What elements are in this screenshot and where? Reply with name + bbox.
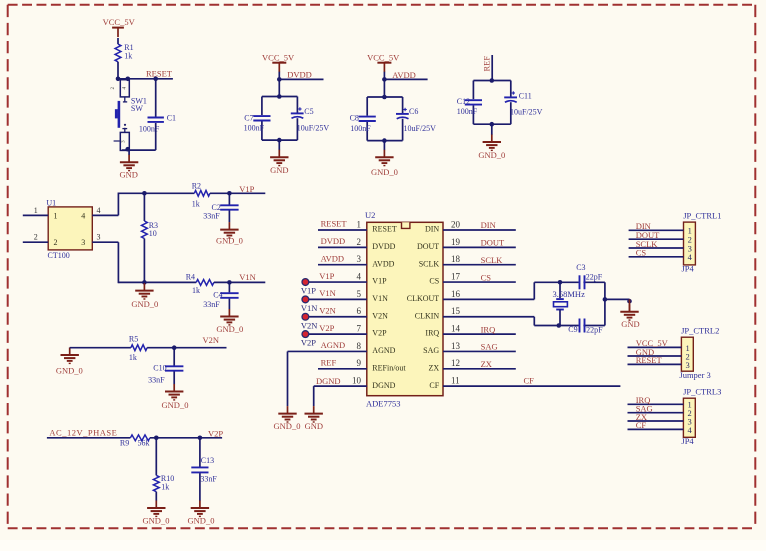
wire AGND pin8 xyxy=(288,350,367,352)
node junction AVDD xyxy=(382,77,387,82)
svg-text:1k: 1k xyxy=(192,200,200,209)
svg-text:GND: GND xyxy=(621,319,639,329)
svg-text:REFin/out: REFin/out xyxy=(372,363,406,372)
U1 pin numbers outside xyxy=(34,206,101,242)
wire C13 lower xyxy=(199,473,201,501)
ground GND_0 (R10) xyxy=(143,501,170,526)
svg-text:10: 10 xyxy=(352,376,362,386)
resistor R1 xyxy=(115,43,134,62)
wire crystal top rail xyxy=(534,281,605,283)
node junction C1 tap xyxy=(153,77,158,82)
wire RESET to JP_CTRL2 xyxy=(628,363,682,365)
svg-text:17: 17 xyxy=(451,271,461,281)
connector JP_CTRL3 box xyxy=(683,398,695,437)
wire R10 top xyxy=(155,438,157,476)
wire V1N pin5 xyxy=(305,298,366,300)
ground GND_0 (AVDD) xyxy=(371,150,398,177)
node junction DVDD xyxy=(277,77,282,82)
node junction C4 xyxy=(227,280,232,285)
svg-text:C6: C6 xyxy=(409,107,418,116)
resistor R2 xyxy=(192,182,210,209)
wire crystal bottom rail xyxy=(534,325,605,327)
wire R5 right xyxy=(147,347,226,349)
wire DVDD pin2 xyxy=(318,246,367,248)
svg-text:V1P: V1P xyxy=(239,184,254,194)
svg-text:R4: R4 xyxy=(186,273,195,282)
svg-text:100nF: 100nF xyxy=(457,107,478,116)
wire GND to JP_CTRL2 xyxy=(628,355,682,357)
svg-text:DOUT: DOUT xyxy=(417,242,439,251)
svg-text:JP_CTRL2: JP_CTRL2 xyxy=(681,326,719,336)
svg-text:11: 11 xyxy=(451,376,460,386)
svg-text:2: 2 xyxy=(357,237,362,247)
svg-text:20: 20 xyxy=(451,219,461,229)
wire R3 top xyxy=(143,193,145,221)
wire C1 upper stem xyxy=(155,79,157,117)
svg-text:12: 12 xyxy=(451,358,460,368)
wire IRQ to JP_CTRL3 xyxy=(628,403,684,405)
wire SCLK pin18 xyxy=(443,264,516,266)
ground GND (crystal) xyxy=(620,299,639,328)
node junction top rail (DVDD) xyxy=(277,94,282,99)
svg-text:5: 5 xyxy=(357,289,362,299)
svg-text:C3: C3 xyxy=(576,263,585,272)
capacitor C8 xyxy=(350,114,376,133)
svg-text:ZX: ZX xyxy=(481,359,492,369)
resistor R5 xyxy=(129,334,147,362)
node junction R1/SW1 xyxy=(116,77,130,82)
node junction C10 xyxy=(172,345,177,350)
test point V1N xyxy=(302,296,309,303)
svg-text:ZX: ZX xyxy=(429,363,440,372)
svg-text:AC_12V_PHASE: AC_12V_PHASE xyxy=(49,427,117,437)
capacitor C2 xyxy=(203,203,238,220)
svg-text:1k: 1k xyxy=(129,353,137,362)
wire C2 upper xyxy=(228,193,230,204)
wire CS pin17 xyxy=(443,281,516,283)
svg-text:3: 3 xyxy=(97,233,101,242)
wire U1 pin3 down xyxy=(117,242,119,283)
svg-text:DVDD: DVDD xyxy=(321,236,346,246)
svg-text:GND_0: GND_0 xyxy=(131,299,158,309)
svg-text:C12: C12 xyxy=(457,97,470,106)
svg-text:R9: R9 xyxy=(120,439,129,448)
wire SAG pin13 xyxy=(443,350,516,352)
node junction bottom rail (REF) xyxy=(490,122,495,127)
svg-text:AVDD: AVDD xyxy=(321,253,344,263)
ground GND_0 (REF) xyxy=(478,135,505,160)
svg-text:DVDD: DVDD xyxy=(287,70,312,80)
svg-text:V1N: V1N xyxy=(301,303,318,313)
power VCC_5V (R1) xyxy=(103,17,136,37)
svg-text:V1N: V1N xyxy=(372,294,388,303)
ground GND_0 (R3) xyxy=(131,283,158,309)
svg-text:C4: C4 xyxy=(213,290,222,299)
svg-text:4: 4 xyxy=(97,206,101,215)
svg-text:AVDD: AVDD xyxy=(372,259,394,268)
U1 pin names inside xyxy=(54,211,86,247)
svg-text:V1P: V1P xyxy=(319,271,334,281)
component U1 CT100 box xyxy=(48,207,92,250)
wire SCLK to JP_CTRL1 xyxy=(629,247,684,249)
svg-text:1: 1 xyxy=(54,211,58,220)
wire crystal stem top xyxy=(559,282,561,298)
wire DIN to JP_CTRL1 xyxy=(629,229,684,231)
svg-text:100nF: 100nF xyxy=(139,124,160,133)
wire C8 stems xyxy=(366,97,368,141)
svg-text:GND_0: GND_0 xyxy=(216,236,243,246)
test point V2P xyxy=(302,331,309,338)
svg-text:REF: REF xyxy=(321,358,337,368)
svg-text:100nF: 100nF xyxy=(350,124,371,133)
wire V1P rail left xyxy=(118,192,194,194)
svg-text:V2P: V2P xyxy=(319,323,334,333)
U2 orientation notch xyxy=(402,222,410,228)
svg-text:4: 4 xyxy=(81,211,85,220)
svg-text:GND_0: GND_0 xyxy=(216,324,243,334)
wire DGND pin10 xyxy=(314,385,367,387)
svg-text:100nF: 100nF xyxy=(244,124,265,133)
svg-text:GND: GND xyxy=(119,170,137,180)
svg-text:VCC_5V: VCC_5V xyxy=(262,53,295,63)
ground GND (DGND) xyxy=(305,406,324,431)
svg-text:AVDD: AVDD xyxy=(392,70,415,80)
svg-text:C10: C10 xyxy=(153,363,166,372)
svg-text:1k: 1k xyxy=(161,483,169,492)
wire V2N pin6 xyxy=(305,316,366,318)
wire DGND down xyxy=(313,386,315,406)
svg-text:V2P: V2P xyxy=(301,338,316,348)
svg-text:C9: C9 xyxy=(568,325,577,334)
node junction crystal top xyxy=(558,280,563,285)
wire U1 pin4 up xyxy=(117,193,119,216)
capacitor C5 (polarized) xyxy=(291,107,330,133)
wire V1N rail left xyxy=(118,281,196,283)
capacitor C3 xyxy=(576,263,603,289)
svg-text:SAG: SAG xyxy=(481,342,498,352)
svg-text:V2N: V2N xyxy=(372,311,388,320)
svg-text:10uF/25V: 10uF/25V xyxy=(297,124,330,133)
wire to GND (switch) xyxy=(128,150,130,155)
node GND port dot xyxy=(627,299,632,304)
svg-text:33nF: 33nF xyxy=(200,475,217,484)
wire bottom rail (AVDD) xyxy=(367,140,402,142)
wire top rail (DVDD) xyxy=(262,96,298,98)
svg-text:V2N: V2N xyxy=(203,335,220,345)
svg-text:AGND: AGND xyxy=(372,346,395,355)
svg-text:2: 2 xyxy=(34,233,38,242)
wire C2 lower xyxy=(228,211,230,223)
wire V1P pin4 xyxy=(305,281,366,283)
svg-text:DIN: DIN xyxy=(481,220,496,230)
node junction top rail (AVDD) xyxy=(382,95,387,100)
wire C11 stems xyxy=(510,81,512,125)
U1 pin 1 wire xyxy=(23,214,48,216)
wire IRQ pin14 xyxy=(443,333,516,335)
svg-text:1: 1 xyxy=(34,206,38,215)
wire CF pin11 xyxy=(443,385,620,387)
svg-text:SAG: SAG xyxy=(423,346,439,355)
svg-text:RESET: RESET xyxy=(146,69,173,79)
svg-text:22pF: 22pF xyxy=(586,273,603,282)
wire CLKOUT pin16 xyxy=(443,298,534,300)
wire CS to JP_CTRL1 xyxy=(629,256,684,258)
svg-text:3: 3 xyxy=(686,360,690,370)
wire VCC to R1 xyxy=(117,38,119,44)
ground GND_0 (R5 left) xyxy=(56,348,83,376)
wire DVDD xyxy=(279,78,323,80)
svg-text:V1N: V1N xyxy=(239,272,256,282)
svg-text:DGND: DGND xyxy=(372,381,395,390)
svg-text:4: 4 xyxy=(357,271,362,281)
wire C5 stems xyxy=(296,97,298,141)
ground GND (DVDD) xyxy=(270,150,288,176)
wire bottom rail (DVDD) xyxy=(262,139,298,141)
svg-text:GND_0: GND_0 xyxy=(188,516,215,526)
wire VCC_5V to JP_CTRL2 xyxy=(628,346,682,348)
svg-text:DGND: DGND xyxy=(316,376,341,386)
svg-text:R2: R2 xyxy=(192,182,201,191)
svg-text:SCLK: SCLK xyxy=(419,259,440,268)
svg-text:C13: C13 xyxy=(201,456,214,465)
wire C10 lower xyxy=(173,372,175,385)
svg-text:DVDD: DVDD xyxy=(372,242,395,251)
svg-text:GND_0: GND_0 xyxy=(274,421,301,431)
svg-text:V2P: V2P xyxy=(208,429,223,439)
wire RESET pin1 xyxy=(318,229,367,231)
resistor R4 xyxy=(186,273,214,295)
svg-text:56k: 56k xyxy=(138,439,150,448)
ground GND (switch) xyxy=(119,155,138,180)
svg-text:CT100: CT100 xyxy=(48,251,70,260)
svg-text:16: 16 xyxy=(451,289,461,299)
wire R3 to ground xyxy=(143,282,145,284)
svg-text:V2N: V2N xyxy=(301,320,318,330)
capacitor C10 xyxy=(148,363,183,384)
ground GND_0 (C4) xyxy=(216,309,243,334)
resistor R3 xyxy=(142,221,159,239)
svg-text:JP4: JP4 xyxy=(682,264,695,274)
capacitor C9 xyxy=(568,319,603,335)
svg-text:CLKOUT: CLKOUT xyxy=(407,294,440,303)
node junction R10 xyxy=(154,436,159,441)
svg-text:ADE7753: ADE7753 xyxy=(366,398,400,408)
wire R5 left xyxy=(70,347,131,349)
svg-text:SW: SW xyxy=(131,104,143,113)
svg-text:2: 2 xyxy=(54,238,58,247)
svg-text:33nF: 33nF xyxy=(203,211,220,220)
svg-text:1k: 1k xyxy=(124,52,132,61)
wire R3 bottom xyxy=(143,239,145,283)
wire AVDD xyxy=(384,78,427,80)
svg-text:7: 7 xyxy=(357,324,362,334)
node junction R3 bottom xyxy=(142,280,147,285)
wire REF pin9 xyxy=(318,368,367,370)
sheet edge strip xyxy=(0,540,766,551)
svg-text:GND: GND xyxy=(305,421,323,431)
svg-text:1: 1 xyxy=(357,219,362,229)
capacitor C4 xyxy=(203,290,238,309)
U1 pin 4 wire xyxy=(92,214,118,216)
node junction crystal bottom xyxy=(557,323,562,328)
ground GND_0 (AGND) xyxy=(274,406,301,431)
wire bottom rail (REF) xyxy=(473,123,510,125)
svg-text:C5: C5 xyxy=(304,107,313,116)
wire R10 bottom xyxy=(155,492,157,501)
node junction C13 xyxy=(198,436,203,441)
svg-text:RESET: RESET xyxy=(372,225,397,234)
switch SW1 xyxy=(111,80,130,151)
svg-text:3.58MHz: 3.58MHz xyxy=(553,289,586,299)
wire R1 to RESET node xyxy=(117,62,119,79)
svg-text:V1P: V1P xyxy=(372,277,387,286)
node junction switch bottom xyxy=(125,147,130,152)
resistor R10 xyxy=(153,474,174,492)
svg-text:33nF: 33nF xyxy=(148,375,165,384)
connector JP_CTRL2 box xyxy=(681,337,693,371)
svg-text:R5: R5 xyxy=(129,334,138,343)
test point V2N xyxy=(302,313,309,320)
svg-text:1k: 1k xyxy=(192,286,200,295)
wire to ground (REF) xyxy=(491,124,493,135)
op-amp U2 ADE7753 body xyxy=(367,222,443,395)
node junction bottom rail (DVDD) xyxy=(277,138,282,143)
svg-text:V1P: V1P xyxy=(301,286,316,296)
wire crystal right vertical xyxy=(604,282,606,325)
wire ZX to JP_CTRL3 xyxy=(628,420,684,422)
svg-text:Jumper 3: Jumper 3 xyxy=(679,370,710,380)
svg-text:RESET: RESET xyxy=(636,355,663,365)
svg-text:RESET: RESET xyxy=(321,219,348,229)
ground GND_0 (C10) xyxy=(162,384,189,410)
capacitor C13 xyxy=(191,456,217,483)
wire R9 right xyxy=(150,437,222,439)
crystal Y1 3.58MHz xyxy=(553,289,586,310)
power VCC_5V (DVDD) xyxy=(262,53,295,73)
resistor R9 xyxy=(120,435,150,448)
svg-text:13: 13 xyxy=(451,341,461,351)
svg-text:SCLK: SCLK xyxy=(481,255,504,265)
svg-text:10uF/25V: 10uF/25V xyxy=(404,124,437,133)
wire to GND (crystal) xyxy=(605,298,630,300)
svg-text:CLKIN: CLKIN xyxy=(415,311,440,320)
designator SW1 xyxy=(131,97,147,113)
wire VCC stem (AVDD) xyxy=(383,72,385,97)
svg-text:CF: CF xyxy=(429,381,439,390)
svg-text:14: 14 xyxy=(451,324,461,334)
svg-text:9: 9 xyxy=(357,358,362,368)
svg-text:IRQ: IRQ xyxy=(481,324,496,334)
svg-text:REF: REF xyxy=(481,56,491,72)
test point V1P xyxy=(302,279,309,286)
svg-text:U1: U1 xyxy=(46,199,56,208)
wire C12 stems xyxy=(472,81,474,125)
wire V1P rail right xyxy=(210,192,265,194)
wire top rail (AVDD) xyxy=(367,96,402,98)
ground GND_0 (C13) xyxy=(188,501,215,526)
svg-text:4: 4 xyxy=(688,425,693,435)
svg-text:33nF: 33nF xyxy=(203,300,220,309)
wire to ground (AVDD) xyxy=(383,141,385,151)
svg-text:6: 6 xyxy=(357,306,362,316)
svg-text:IRQ: IRQ xyxy=(425,329,439,338)
svg-text:C1: C1 xyxy=(167,114,176,123)
wire AGND down xyxy=(287,351,289,406)
wire CF to JP_CTRL3 xyxy=(628,428,684,430)
svg-text:AGND: AGND xyxy=(321,340,346,350)
svg-text:CS: CS xyxy=(429,277,439,286)
svg-text:GND: GND xyxy=(270,165,288,175)
wire C6 stems xyxy=(402,97,404,141)
wire V2P pin7 xyxy=(305,333,366,335)
wire switch bottom rail xyxy=(122,149,156,151)
svg-text:C8: C8 xyxy=(350,114,359,123)
wire C10 upper xyxy=(173,348,175,366)
capacitor C7 xyxy=(244,114,271,133)
svg-text:3: 3 xyxy=(81,238,85,247)
ground GND_0 (C2) xyxy=(216,222,243,246)
svg-text:22pF: 22pF xyxy=(586,326,603,335)
wire top rail (REF) xyxy=(473,80,510,82)
svg-text:GND_0: GND_0 xyxy=(143,516,170,526)
wire CLKIN down xyxy=(533,317,535,326)
svg-text:10uF/25V: 10uF/25V xyxy=(510,108,543,117)
wire DIN pin20 xyxy=(443,229,516,231)
connector JP_CTRL1 box xyxy=(684,222,696,265)
wire C4 lower xyxy=(228,299,230,310)
svg-text:VCC_5V: VCC_5V xyxy=(367,53,400,63)
svg-text:DIN: DIN xyxy=(425,225,439,234)
svg-text:8: 8 xyxy=(357,341,362,351)
svg-text:JP4: JP4 xyxy=(681,436,694,446)
svg-text:18: 18 xyxy=(451,254,461,264)
svg-text:GND_0: GND_0 xyxy=(371,167,398,177)
svg-text:19: 19 xyxy=(451,237,461,247)
svg-text:V2P: V2P xyxy=(372,329,387,338)
svg-text:U2: U2 xyxy=(365,210,375,220)
power VCC_5V (AVDD) xyxy=(367,53,400,73)
wire RESET xyxy=(118,78,173,80)
svg-text:15: 15 xyxy=(451,306,461,316)
svg-text:GND_0: GND_0 xyxy=(162,400,189,410)
wire C1 lower stem xyxy=(155,123,157,150)
node junction bottom rail (AVDD) xyxy=(382,138,387,143)
node junction top rail (REF) xyxy=(490,78,495,83)
svg-text:C11: C11 xyxy=(519,91,532,100)
wire AC_12V_PHASE xyxy=(47,437,130,439)
wire DOUT to JP_CTRL1 xyxy=(629,238,684,240)
wire REF stem xyxy=(491,55,493,81)
wire C7 stems xyxy=(261,97,263,141)
wire crystal stem bottom xyxy=(559,310,561,326)
wire CLKIN pin15 xyxy=(443,316,534,318)
wire SAG to JP_CTRL3 xyxy=(628,412,684,414)
svg-text:DOUT: DOUT xyxy=(481,238,505,248)
svg-text:CS: CS xyxy=(636,248,647,258)
svg-text:CS: CS xyxy=(481,272,492,282)
wire to ground (DVDD) xyxy=(278,140,280,150)
svg-text:JP_CTRL1: JP_CTRL1 xyxy=(683,210,721,220)
wire C4 upper xyxy=(228,282,230,292)
svg-text:VCC_5V: VCC_5V xyxy=(103,17,136,27)
wire ZX pin12 xyxy=(443,368,516,370)
node junction R3 top xyxy=(142,191,147,196)
node junction C2 xyxy=(227,191,232,196)
wire AVDD pin3 xyxy=(318,264,367,266)
capacitor C1 xyxy=(139,114,176,134)
capacitor C11 (polarized) xyxy=(504,91,542,116)
wire CLKOUT up xyxy=(533,282,535,299)
